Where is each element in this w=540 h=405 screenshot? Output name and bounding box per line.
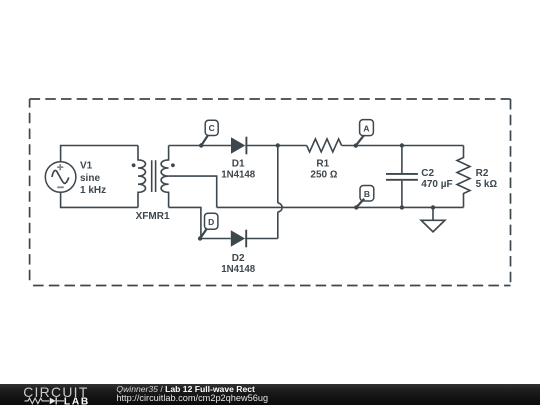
voltage source V1	[45, 162, 76, 193]
label R2 5 kOhm	[476, 168, 498, 190]
secondary winding with center tap	[161, 146, 169, 208]
dashed border frame	[30, 99, 511, 286]
svg-text:R1: R1	[316, 159, 329, 170]
svg-text:D1: D1	[232, 159, 245, 170]
svg-text:B: B	[364, 189, 370, 199]
svg-text:D2: D2	[232, 253, 245, 264]
secondary polarity dot	[171, 163, 175, 167]
wire secondary bottom down to node D	[169, 207, 201, 238]
svg-text:XFMR1: XFMR1	[136, 211, 170, 222]
svg-text:LAB: LAB	[64, 396, 90, 405]
wire riser with hop over bottom rail	[278, 146, 282, 239]
svg-text:5 kΩ: 5 kΩ	[476, 179, 498, 190]
junction C2 top	[400, 143, 404, 147]
wire node D to D2	[200, 238, 231, 240]
node C	[199, 120, 218, 147]
junction C2 bottom	[400, 205, 404, 209]
node B	[354, 186, 374, 210]
wire secondary top to D1	[169, 145, 231, 147]
junction D1 output	[276, 143, 280, 147]
svg-text:sine: sine	[80, 173, 100, 184]
wire D2 cathode to riser	[245, 238, 278, 240]
transformer XFMR1	[132, 146, 175, 208]
label D1 1N4148	[221, 159, 256, 181]
core lines	[152, 160, 156, 192]
node A	[354, 120, 374, 148]
wire D1 cathode to R1	[245, 145, 306, 147]
diode D2	[231, 230, 246, 248]
primary winding	[138, 146, 146, 208]
ground	[421, 205, 445, 232]
label R1 250 Ohm	[310, 159, 337, 181]
svg-text:C2: C2	[421, 168, 434, 179]
wire R1 to R2 top	[342, 145, 464, 147]
resistor R1	[307, 139, 342, 152]
svg-text:A: A	[363, 123, 369, 133]
logo resistor-diode glyph	[25, 397, 65, 404]
capacitor C2	[386, 146, 418, 208]
svg-text:C: C	[209, 123, 215, 133]
label V1 sine 1 kHz	[80, 161, 106, 197]
svg-text:http://circuitlab.com/cm2p2qhe: http://circuitlab.com/cm2p2qhew56ug	[116, 392, 268, 402]
wire V1 bottom to primary	[61, 192, 138, 207]
resistor R2	[457, 146, 470, 208]
footer bar	[0, 384, 540, 405]
svg-text:1N4148: 1N4148	[221, 169, 256, 180]
svg-text:250 Ω: 250 Ω	[310, 169, 337, 180]
svg-text:470 µF: 470 µF	[421, 179, 452, 190]
svg-text:D: D	[208, 217, 214, 227]
wire bottom rail to R2	[217, 206, 464, 208]
label C2 470 uF	[421, 168, 452, 190]
node D	[198, 213, 218, 241]
svg-text:1N4148: 1N4148	[221, 264, 256, 275]
primary polarity dot	[132, 163, 136, 167]
wire V1 top to primary	[61, 146, 138, 162]
wire center tap to bottom rail corner	[169, 176, 217, 207]
svg-text:1 kHz: 1 kHz	[80, 185, 106, 196]
label D2 1N4148	[221, 253, 256, 275]
svg-text:R2: R2	[476, 168, 489, 179]
svg-text:V1: V1	[80, 161, 93, 172]
diode D1	[231, 137, 246, 155]
